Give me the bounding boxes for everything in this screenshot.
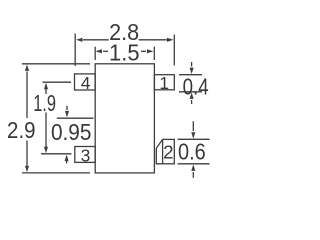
dimension 2.8 left extension line — [74, 34, 76, 67]
dimension 0.6 top extent line — [178, 138, 210, 140]
lead 3 (bottom-left) — [75, 147, 95, 163]
dimension 0.95 outside arrows — [65, 106, 70, 164]
dimension text 2.9 — [7, 117, 36, 143]
dimension 0.6 bottom extent line — [178, 163, 210, 165]
svg-text:3: 3 — [81, 145, 91, 165]
svg-text:0.6: 0.6 — [178, 138, 206, 164]
svg-text:4: 4 — [81, 73, 91, 93]
lead 2 (bottom-right, wide bevelled lead) — [156, 139, 174, 163]
dimension text 0.95 — [51, 119, 92, 145]
pin number 2 — [163, 142, 173, 163]
dimension 1.5 line with outward arrows — [95, 49, 153, 53]
svg-text:1.9: 1.9 — [33, 90, 56, 116]
dimension text 1.9 — [33, 90, 56, 116]
package body — [95, 64, 154, 173]
dimension 0.6 outside arrows — [191, 121, 195, 178]
extension line at lead 3 centerline — [41, 153, 72, 155]
svg-text:0.4: 0.4 — [183, 73, 209, 99]
lead 1 (top-right) — [154, 75, 174, 90]
dimension text 2.8 — [109, 19, 139, 45]
dimension 0.4 outside arrows — [190, 62, 194, 104]
dimension 1.9 line with outward arrows — [44, 83, 48, 153]
svg-text:2: 2 — [163, 142, 173, 163]
extension line at lead 4 centerline — [43, 81, 72, 83]
dimension 2.9 top extension line — [22, 63, 90, 65]
dimension text 1.5 — [109, 39, 140, 65]
dimension text 0.6 — [178, 138, 206, 164]
dimension 2.9 bottom extension line — [22, 172, 90, 174]
dimension 1.5 right extension tick — [153, 47, 155, 60]
extension line at package centerline for 0.95 — [57, 117, 94, 119]
lead 4 (top-left) — [75, 74, 96, 90]
svg-text:2.9: 2.9 — [7, 117, 36, 143]
dimension 2.8 right extension line — [173, 35, 175, 66]
svg-text:1: 1 — [159, 73, 169, 93]
pin number 4 — [81, 73, 91, 93]
pin number 3 — [81, 145, 91, 165]
dimension 0.4 top extent line — [179, 74, 202, 76]
svg-text:0.95: 0.95 — [51, 119, 92, 145]
dimension 1.5 left extension tick — [94, 47, 96, 60]
dimension 2.8 line with outward arrows — [76, 38, 174, 42]
dimension 2.9 line with outward arrows — [25, 64, 29, 172]
dimension 0.4 bottom extent line — [179, 91, 202, 93]
pin number 1 — [159, 73, 169, 93]
dimension text 0.4 — [183, 73, 209, 99]
svg-text:1.5: 1.5 — [109, 39, 140, 65]
